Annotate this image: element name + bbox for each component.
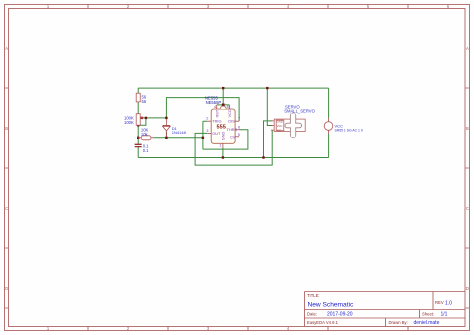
svg-text:1: 1 bbox=[219, 142, 221, 147]
svg-text:C: C bbox=[466, 206, 469, 211]
svg-text:Sheet:: Sheet: bbox=[422, 312, 434, 317]
left ticks bbox=[5, 88, 9, 308]
diode D1 1N4148 bbox=[163, 119, 187, 137]
node top rail / 555 power bbox=[222, 87, 224, 89]
svg-text:1.0: 1.0 bbox=[445, 301, 452, 307]
svg-text:7: 7 bbox=[238, 116, 240, 121]
svg-text:RST: RST bbox=[214, 109, 219, 117]
pin VCC lead bbox=[228, 105, 230, 109]
wire cap to bottom rail bbox=[137, 147, 139, 158]
junction dots bbox=[137, 87, 269, 159]
node gnd / bottom rail bbox=[222, 156, 224, 158]
svg-text:555: 555 bbox=[217, 124, 226, 130]
svg-text:SR65 1 SG AC 1 0: SR65 1 SG AC 1 0 bbox=[335, 128, 363, 132]
servo pin leads bbox=[271, 121, 274, 130]
pin TRIG lead bbox=[207, 120, 211, 122]
resistor 10K bbox=[138, 128, 154, 140]
servo horn cross vertical bbox=[290, 113, 295, 138]
svg-text:EasyEDA V4.9.1: EasyEDA V4.9.1 bbox=[307, 320, 339, 325]
top ticks bbox=[88, 5, 408, 9]
svg-text:GND: GND bbox=[220, 131, 225, 140]
wire top VCC rail bbox=[138, 87, 328, 89]
svg-text:2: 2 bbox=[206, 116, 208, 121]
svg-text:VCC: VCC bbox=[227, 109, 232, 117]
frame column numbers top bbox=[47, 4, 450, 9]
svg-text:CV: CV bbox=[230, 134, 236, 139]
node rail / 10K left bbox=[137, 137, 139, 139]
svg-text:TRIG: TRIG bbox=[212, 119, 221, 124]
servo connector SMALL_SERVO bbox=[271, 104, 316, 137]
svg-text:1N4148: 1N4148 bbox=[172, 130, 187, 135]
svg-text:A: A bbox=[5, 46, 8, 51]
555 pin leads bbox=[207, 105, 239, 148]
notch bbox=[220, 106, 226, 109]
servo body bbox=[274, 119, 305, 131]
capacitor 0.1 bbox=[135, 143, 150, 153]
wire wiper jumper to pot bottom bbox=[138, 118, 146, 125]
svg-text:GND: GND bbox=[277, 119, 283, 123]
title block bbox=[305, 292, 466, 327]
svg-text:D: D bbox=[466, 286, 469, 291]
svg-text:TITLE:: TITLE: bbox=[307, 293, 320, 298]
svg-text:REV: REV bbox=[435, 300, 444, 305]
wire left rail top (rail to R56) bbox=[137, 88, 139, 93]
pin DIS lead bbox=[235, 120, 239, 122]
power source VCC circle bbox=[324, 118, 363, 134]
node wiper / diode top bbox=[165, 117, 167, 119]
node servo gnd / bottom rail bbox=[262, 156, 264, 158]
node top rail / servo vcc bbox=[266, 87, 268, 89]
svg-text:8: 8 bbox=[227, 104, 229, 109]
pin OUT lead bbox=[207, 132, 211, 134]
node wiper arrow tip bbox=[141, 117, 143, 119]
svg-text:THRS: THRS bbox=[227, 127, 238, 132]
servo pin tiny labels bbox=[277, 119, 283, 132]
svg-text:56: 56 bbox=[142, 99, 147, 104]
wire TRIG vertical bbox=[203, 121, 207, 149]
wire servo mid pin to vcc rail bbox=[267, 88, 272, 125]
servo horn cross horizontal bbox=[285, 123, 302, 128]
wire R56 to pot bbox=[137, 102, 139, 114]
svg-text:D: D bbox=[5, 286, 8, 291]
op 555 chip body U1 bbox=[211, 106, 235, 143]
wire 555 power drop bbox=[217, 88, 230, 105]
svg-text:Date:: Date: bbox=[307, 312, 317, 317]
svg-text:100K: 100K bbox=[124, 120, 134, 125]
potentiometer 100K bbox=[124, 114, 143, 126]
svg-text:0.1: 0.1 bbox=[143, 148, 149, 153]
svg-text:SMALL_SERVO: SMALL_SERVO bbox=[284, 109, 315, 114]
svg-text:deniel.mate: deniel.mate bbox=[414, 320, 440, 326]
wire below-chip THRS link bbox=[203, 130, 248, 149]
pin THRS lead bbox=[235, 129, 239, 131]
svg-text:B: B bbox=[5, 126, 8, 131]
frame row letters right bbox=[466, 46, 469, 291]
wiper arrow bbox=[140, 117, 143, 119]
wire 10K right to TRIG-vertical bbox=[154, 137, 203, 139]
node trig vertical / out rail bbox=[202, 137, 204, 139]
svg-text:DIS: DIS bbox=[228, 119, 235, 124]
wire wiper up-over to DIS bbox=[166, 98, 239, 122]
resistor R 56 bbox=[136, 93, 147, 104]
svg-text:3: 3 bbox=[206, 128, 208, 133]
svg-text:SIG: SIG bbox=[277, 128, 282, 132]
svg-text:1/1: 1/1 bbox=[441, 312, 448, 318]
svg-text:VCC: VCC bbox=[277, 124, 283, 128]
wire bottom rail bbox=[138, 157, 328, 159]
node wiper jumper bbox=[145, 117, 147, 119]
svg-text:B: B bbox=[466, 126, 469, 131]
pin RST lead bbox=[216, 105, 218, 109]
svg-text:New Schematic: New Schematic bbox=[308, 302, 355, 309]
servo inner block bbox=[276, 120, 284, 131]
svg-text:10k: 10k bbox=[141, 132, 149, 137]
555 pin numbers bbox=[206, 104, 240, 147]
svg-text:A: A bbox=[466, 46, 469, 51]
555 chip labels bbox=[205, 96, 221, 105]
pin CV lead bbox=[235, 136, 239, 138]
wire VCC source top drop bbox=[328, 88, 330, 118]
555 pin names bbox=[212, 109, 237, 140]
svg-text:2017-09-20: 2017-09-20 bbox=[327, 312, 353, 318]
node pot bottom jumper bbox=[137, 124, 139, 126]
node diode bottom / out rail bbox=[165, 137, 167, 139]
wire pot bottom to cap bbox=[137, 125, 139, 144]
right ticks bbox=[465, 88, 470, 308]
wire VCC source bottom drop bbox=[328, 134, 330, 158]
frame row letters left bbox=[5, 46, 8, 291]
bottom ticks bbox=[88, 327, 408, 331]
frame column numbers bottom bbox=[47, 326, 290, 331]
wire OUT to servo SIG bbox=[195, 130, 272, 165]
wire pot wiper horizontal bbox=[142, 117, 167, 119]
wire diode bottom to OUT rail bbox=[165, 132, 167, 138]
node 555 power tee bbox=[222, 104, 225, 107]
svg-text:Drawn By:: Drawn By: bbox=[389, 320, 408, 325]
wire servo top pin to ground rail bbox=[264, 121, 273, 158]
wire 555 GND to bottom rail bbox=[222, 148, 224, 158]
svg-text:5: 5 bbox=[238, 132, 240, 137]
svg-text:C: C bbox=[5, 206, 8, 211]
pin GND lead bbox=[222, 143, 224, 147]
svg-text:6: 6 bbox=[238, 124, 240, 129]
